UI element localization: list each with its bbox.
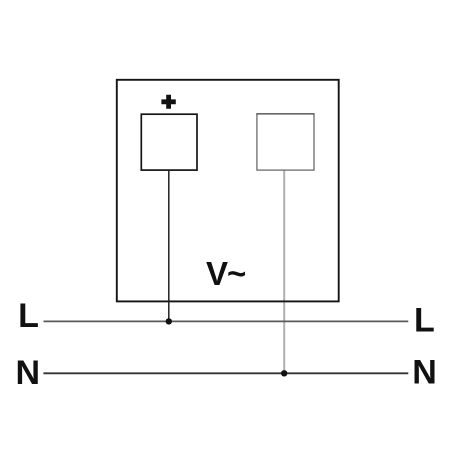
svg-text:L: L (414, 302, 435, 340)
svg-text:N: N (16, 354, 41, 392)
svg-text:N: N (412, 354, 437, 392)
svg-text:L: L (18, 297, 39, 335)
svg-text:V~: V~ (206, 255, 246, 292)
